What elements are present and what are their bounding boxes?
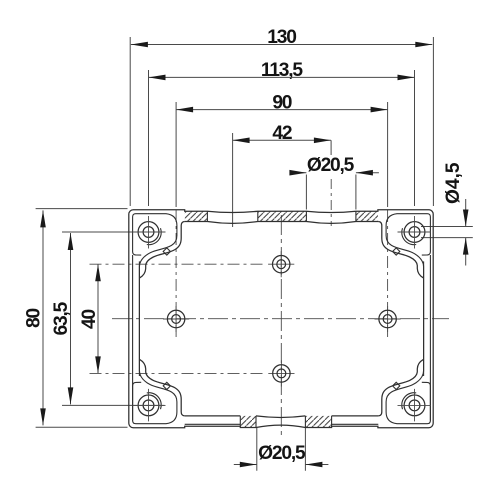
svg-text:63,5: 63,5	[51, 301, 72, 335]
svg-text:42: 42	[272, 123, 291, 144]
svg-text:90: 90	[272, 93, 291, 114]
svg-text:40: 40	[79, 310, 100, 329]
svg-text:Ø20,5: Ø20,5	[307, 155, 355, 176]
svg-text:80: 80	[24, 309, 45, 328]
svg-text:Ø20,5: Ø20,5	[258, 443, 306, 464]
svg-text:Ø4,5: Ø4,5	[443, 162, 464, 204]
